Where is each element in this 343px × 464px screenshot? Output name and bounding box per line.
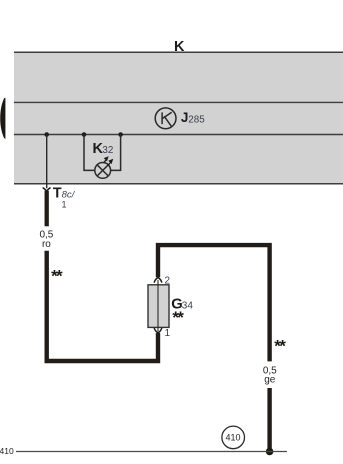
junction dot K32 left — [82, 132, 87, 137]
continuation arrow (left margin) — [0, 98, 5, 139]
bus bar line 2 — [14, 101, 343, 103]
LED arrows on K32 — [104, 157, 112, 165]
pin 2 arrow of G34 — [154, 278, 161, 283]
pin 1 arrow of G34 — [154, 328, 161, 333]
bus bar line 3 — [14, 134, 343, 136]
svg-text:285: 285 — [188, 114, 205, 125]
svg-text:410: 410 — [0, 446, 14, 456]
svg-text:1: 1 — [165, 328, 171, 339]
junction node A on line 3 — [44, 132, 49, 137]
svg-text:ro: ro — [42, 239, 51, 250]
indicator lamp symbol J285 (K in circle) — [155, 108, 176, 129]
svg-text:**: ** — [274, 336, 286, 355]
sender G34 body — [148, 285, 169, 328]
svg-text:2: 2 — [164, 276, 170, 287]
wire 0,5 ro lower segment to G34 pin 1 — [47, 251, 158, 361]
lamp symbol K32 (circle with cross) — [95, 163, 111, 179]
current track number 410 — [222, 426, 245, 449]
wire from G34 pin 2 up, right and down — [158, 245, 270, 361]
svg-text:410: 410 — [225, 433, 240, 443]
warning lamp K32 frame — [84, 135, 121, 171]
svg-text:34: 34 — [182, 300, 194, 311]
svg-text:**: ** — [51, 267, 63, 286]
junction dot on ground rail — [266, 448, 274, 456]
wire (thin) from node A down through band — [46, 135, 48, 189]
bus bar top line — [14, 51, 343, 53]
wire 0,5 ge lower segment — [267, 388, 271, 452]
bus bar bottom line — [14, 183, 343, 185]
bus bar band (dash panel insert K) — [14, 52, 343, 184]
ground rail (track 410) — [16, 451, 287, 453]
wire through G34 — [157, 280, 159, 332]
svg-text:32: 32 — [102, 145, 113, 156]
svg-text:1: 1 — [61, 200, 66, 210]
junction dot K32 right — [118, 132, 123, 137]
svg-text:K: K — [174, 39, 185, 55]
svg-text:ge: ge — [264, 374, 276, 385]
svg-text:J: J — [181, 110, 189, 125]
wire 0,5 ro upper thick segment — [45, 191, 49, 227]
connector arrow T8c/1 — [43, 188, 50, 191]
